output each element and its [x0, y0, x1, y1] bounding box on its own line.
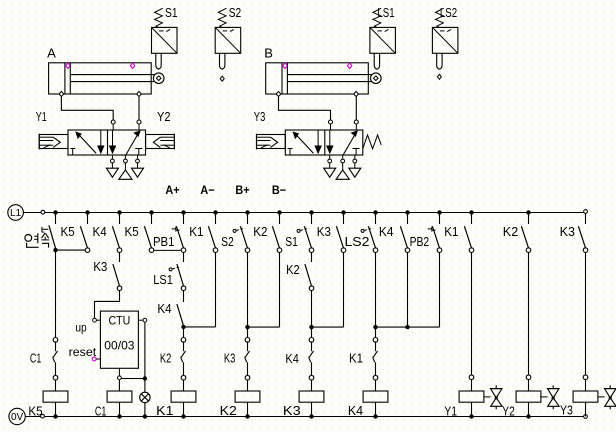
svg-text:K3: K3 [560, 224, 575, 239]
svg-text:B: B [264, 46, 273, 61]
wire cylinder B right port to valve V2 port 2 [355, 97, 357, 120]
valve V1 port 2 circle [137, 120, 141, 124]
valve V1 exhausts and ports [106, 155, 143, 179]
coil Y3 [573, 391, 598, 417]
counter CTU block [100, 311, 138, 368]
coil Y1 [459, 391, 484, 417]
limit mark S1 [297, 229, 307, 233]
svg-text:K4: K4 [379, 224, 394, 239]
pushbutton mark PB2 [428, 227, 436, 232]
svg-text:LS1: LS1 [377, 5, 394, 20]
svg-text:Y1: Y1 [444, 404, 457, 419]
rail junction nodes on L1 [53, 210, 530, 214]
contact K3 rung10 [336, 213, 345, 253]
pushbutton mark PB1 [172, 227, 180, 232]
wire rung7 down [247, 252, 249, 337]
contact K4 rung3 [112, 213, 121, 253]
svg-text:K2: K2 [503, 224, 518, 239]
coil K2 [235, 391, 260, 417]
coil K1 [171, 391, 196, 417]
contact K1 row4 [373, 338, 378, 391]
limit mark LS2 [361, 229, 371, 233]
counter up input pin [75, 318, 100, 334]
svg-text:Y1: Y1 [36, 109, 47, 124]
terminal circle rung16 [583, 375, 588, 380]
contact PB1 [176, 213, 185, 253]
pilot valve symbol Y2 [541, 385, 559, 409]
svg-text:L1: L1 [10, 208, 22, 219]
wire rung11 to rung13 [376, 326, 440, 328]
svg-text:Y3: Y3 [560, 403, 573, 418]
svg-text:B−: B− [272, 183, 286, 197]
small diamond below LS2 plunger [437, 74, 441, 79]
wire junction down [183, 327, 185, 338]
svg-text:CTU: CTU [109, 313, 131, 327]
svg-text:K4: K4 [348, 403, 363, 418]
0V rail junction nodes [53, 414, 530, 418]
svg-text:S2: S2 [229, 5, 242, 20]
node counter output junction [143, 376, 147, 380]
svg-text:LS1: LS1 [153, 272, 173, 287]
svg-text:K5: K5 [125, 224, 139, 239]
solenoid pilot Y1 [39, 134, 68, 150]
svg-text:K3: K3 [283, 403, 301, 418]
contact K3 rung3 row2 [113, 252, 122, 290]
contact K5 rung4 [144, 213, 153, 253]
wire counter bottom pin to lamp junction [121, 378, 145, 380]
wire counter bottom pin to C1 coil [118, 380, 120, 391]
svg-text:S1: S1 [285, 234, 298, 249]
svg-text:K2: K2 [286, 262, 300, 277]
valve V1 port 4 circle [111, 120, 115, 124]
svg-text:Y3: Y3 [254, 109, 265, 124]
wire cylinder A right port to valve V1 port 2 [138, 97, 140, 120]
wire rung5 to rung6 [184, 326, 216, 328]
svg-text:LS2: LS2 [440, 5, 457, 20]
korean label yeonsok [25, 233, 49, 247]
limit switch LS1 [370, 5, 396, 69]
contact PB2 rung13 [432, 213, 441, 253]
cylinder B [264, 46, 381, 97]
detent mark of manual switch [42, 227, 48, 232]
svg-text:up: up [75, 321, 87, 335]
valve V2 return spring [363, 135, 382, 149]
small diamond below S2 plunger [220, 76, 224, 81]
coil K3 [299, 391, 324, 417]
svg-text:A+: A+ [165, 183, 179, 197]
coil K4 [363, 391, 388, 417]
svg-text:K3: K3 [224, 351, 235, 366]
L1 rail connector circle [41, 210, 45, 214]
svg-text:0V: 0V [11, 412, 24, 423]
wire cylinder B left port to valve V2 port 4 [279, 97, 331, 120]
svg-text:A−: A− [200, 183, 214, 197]
svg-text:K5: K5 [61, 224, 75, 239]
contact K4 rung12 [400, 213, 409, 253]
limit switch S2 [215, 5, 241, 69]
node junction rung11 [373, 325, 377, 329]
svg-text:K1: K1 [349, 351, 363, 366]
0V rail end circle [584, 415, 588, 419]
svg-text:B+: B+ [235, 183, 249, 197]
wire rung11 down [375, 252, 377, 337]
svg-text:C1: C1 [95, 403, 106, 418]
0V rail connector circle [41, 414, 45, 418]
svg-text:A: A [47, 46, 56, 61]
contact K1 rung14 [464, 213, 473, 253]
counter bottom pin [118, 368, 122, 379]
wire rung13 down to junction [439, 252, 441, 327]
svg-text:Y2: Y2 [502, 404, 515, 419]
contact K2 rung8 [272, 213, 281, 253]
svg-text:Y2: Y2 [157, 109, 171, 124]
contact LS1 row2 [177, 252, 186, 290]
wire rung12 down to junction [407, 252, 409, 327]
wire rung6 down to junction [215, 252, 217, 327]
svg-text:K4: K4 [93, 224, 107, 239]
wire rung1 to rung2 [56, 249, 86, 251]
svg-text:K2: K2 [253, 224, 267, 239]
limit mark S2 [233, 229, 243, 233]
node junction rung1 bottom [53, 248, 57, 252]
svg-text:K4: K4 [157, 301, 171, 316]
contact K4 row3 [177, 291, 184, 326]
svg-text:reset: reset [69, 345, 97, 359]
contact K2 row4 [181, 338, 186, 391]
svg-text:S2: S2 [221, 234, 234, 249]
counter output pin right [138, 318, 146, 322]
contact K1 rung6 [208, 213, 217, 253]
power rail L1 [8, 205, 586, 221]
valve V2 port 4 circle [329, 120, 333, 124]
wire rung4 to rung5 [154, 249, 181, 251]
node junction rung5 [181, 325, 185, 329]
contact K2 rung9 row2 [305, 252, 314, 290]
terminal circle rung14 [469, 375, 474, 380]
node junction rung12 [405, 325, 409, 329]
limit mark LS1 [169, 267, 179, 271]
svg-text:K1: K1 [156, 403, 173, 418]
svg-text:K1: K1 [189, 224, 203, 239]
wire cylinder A left port to valve V1 port 4 [61, 97, 113, 120]
svg-text:K5: K5 [28, 403, 42, 418]
node junction rung9 [309, 325, 313, 329]
contact K4 row4 [309, 338, 314, 391]
pilot valve symbol Y1 [484, 385, 502, 409]
pilot valve symbol Y3 [598, 385, 616, 409]
wire rung9 down [311, 291, 313, 338]
contact K2 rung15 [521, 213, 530, 253]
wire rung9 to rung10 [312, 326, 344, 328]
svg-text:K3: K3 [93, 259, 107, 274]
contact K3 row4 [245, 338, 250, 391]
wire to Y2 coil [528, 380, 530, 391]
svg-text:K3: K3 [317, 224, 331, 239]
terminal circle rung15 [526, 375, 531, 380]
wire rung1 down to C1 contact [55, 250, 57, 337]
contact LS2 rung11 [368, 213, 377, 253]
svg-text:LS2: LS2 [345, 234, 370, 249]
wire counter output down to lamp [144, 322, 146, 392]
contact K3 rung16 [578, 214, 587, 253]
svg-text:C1: C1 [30, 351, 41, 366]
svg-text:00/03: 00/03 [104, 338, 135, 352]
cylinder A [47, 46, 164, 97]
wire rung15 down [528, 252, 530, 375]
wire to Y3 coil [585, 380, 587, 391]
solenoid pilot Y2 [146, 134, 175, 150]
svg-text:PB2: PB2 [410, 234, 430, 249]
wire rung10 down to junction [343, 252, 345, 327]
limit switch LS2 [432, 5, 458, 69]
svg-text:S1: S1 [165, 5, 178, 20]
node junction rung7 [245, 325, 249, 329]
contact K5 rung2 [80, 213, 89, 253]
power rail 0V [9, 408, 584, 424]
valve V1 body (5/2 double solenoid) [68, 130, 146, 155]
wire rung14 down [471, 252, 473, 375]
contact S2 rung7 [240, 213, 249, 253]
wire to Y1 coil [471, 380, 473, 391]
svg-text:K2: K2 [220, 403, 237, 418]
contact C1 (counter output) [53, 338, 58, 391]
coil K5 [43, 391, 68, 417]
wire rung16 down [585, 252, 587, 375]
valve V2 body (5/2 single solenoid) [285, 130, 363, 155]
valve V2 port 2 circle [354, 120, 358, 124]
coil C1 [107, 391, 132, 417]
wire rung8 down to junction [279, 252, 281, 327]
svg-text:K4: K4 [285, 351, 298, 366]
L1 rail end circle [584, 210, 588, 214]
counter reset input pin [69, 345, 101, 361]
limit switch S1 [152, 5, 178, 69]
coil Y2 [516, 391, 541, 417]
manual switch yeonsok (continuous) [49, 213, 56, 249]
wire rung7 to rung8 [248, 326, 280, 328]
svg-text:K1: K1 [444, 224, 458, 239]
solenoid pilot Y3 [257, 134, 286, 150]
valve V2 exhausts and ports [324, 155, 361, 179]
indicator lamp [140, 392, 150, 416]
wire rung3 to counter up input [95, 291, 120, 319]
contact S1 rung9 [304, 213, 313, 253]
svg-text:PB1: PB1 [153, 234, 174, 249]
svg-text:K2: K2 [160, 351, 171, 366]
